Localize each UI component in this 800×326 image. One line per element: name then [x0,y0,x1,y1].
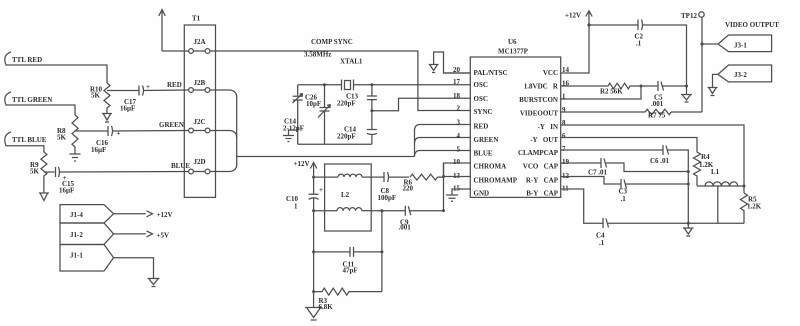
svg-text:VCC: VCC [543,69,558,77]
svg-text:J2D: J2D [194,158,206,166]
svg-text:B-Y CAP: B-Y CAP [526,189,558,197]
svg-text:TTL RED: TTL RED [12,56,42,64]
svg-text:10: 10 [453,158,461,166]
svg-text:C7 .01: C7 .01 [588,169,608,177]
svg-text:J3-1: J3-1 [734,42,747,50]
svg-text:.001: .001 [399,224,412,232]
svg-text:5K: 5K [30,168,40,176]
svg-text:+: + [319,186,323,194]
svg-text:TTL BLUE: TTL BLUE [12,136,47,144]
svg-text:U6: U6 [508,38,517,46]
svg-text:16µF: 16µF [59,187,74,195]
svg-text:5: 5 [457,145,461,153]
svg-text:T1: T1 [192,15,201,23]
svg-text:9: 9 [562,106,566,114]
svg-text:+12V: +12V [565,12,581,20]
svg-text:16µF: 16µF [91,146,106,154]
svg-text:J1-2: J1-2 [70,231,83,239]
svg-text:4: 4 [457,132,461,140]
svg-text:VCO CAP: VCO CAP [523,162,559,170]
svg-text:CLAMPCAP: CLAMPCAP [518,149,559,157]
svg-text:-Y OUT: -Y OUT [530,136,558,144]
svg-text:CHROMAMP: CHROMAMP [474,176,518,184]
svg-text:16µF: 16µF [120,105,135,113]
svg-text:+12V: +12V [294,160,310,168]
svg-text:1: 1 [294,203,298,211]
svg-text:+5V: +5V [157,232,170,240]
svg-text:+: + [117,130,121,138]
svg-text:3: 3 [457,119,461,127]
svg-text:.1: .1 [599,239,605,247]
svg-text:10pF: 10pF [306,100,321,108]
svg-text:COMP SYNC: COMP SYNC [311,38,353,46]
svg-text:220: 220 [403,185,414,193]
svg-text:+12V: +12V [157,211,173,219]
svg-text:L1: L1 [711,168,720,176]
svg-text:GREEN: GREEN [159,121,184,129]
svg-text:SYNC: SYNC [474,108,493,116]
svg-text:17: 17 [453,78,461,86]
svg-text:1.8VDC R: 1.8VDC R [524,82,559,90]
svg-text:CHROMA: CHROMA [474,162,507,170]
svg-text:L2: L2 [341,191,350,199]
svg-text:19: 19 [562,158,570,166]
svg-text:1.2K: 1.2K [747,203,762,211]
svg-text:R4: R4 [701,153,710,161]
svg-text:GREEN: GREEN [474,136,499,144]
svg-text:2-12pF: 2-12pF [283,125,304,133]
svg-text:R-Y CAP: R-Y CAP [526,176,559,184]
svg-text:GND: GND [474,189,490,197]
svg-text:2: 2 [457,104,461,112]
svg-text:J1-1: J1-1 [70,252,83,260]
svg-text:6.8K: 6.8K [319,303,334,311]
svg-text:BLUE: BLUE [474,149,493,157]
svg-text:47pF: 47pF [343,267,358,275]
svg-text:-Y IN: -Y IN [538,123,558,131]
svg-text:+: + [146,83,150,91]
svg-text:RED: RED [474,122,489,130]
svg-text:.001: .001 [651,100,664,108]
svg-text:OSC: OSC [474,81,488,89]
svg-text:PAL/NTSC: PAL/NTSC [474,69,508,77]
svg-text:6: 6 [562,132,566,140]
svg-text:J2C: J2C [194,118,206,126]
svg-text:100pF: 100pF [378,194,397,202]
svg-text:220pF: 220pF [337,133,356,141]
svg-text:J2A: J2A [194,38,206,46]
svg-text:XTAL1: XTAL1 [340,58,363,66]
svg-text:C6 .01: C6 .01 [650,157,670,165]
svg-text:5K: 5K [91,92,101,100]
svg-text:8: 8 [562,119,566,127]
svg-text:J1-4: J1-4 [70,211,83,219]
svg-text:BURSTCON: BURSTCON [519,96,558,104]
svg-text:R7 75: R7 75 [648,112,666,120]
svg-text:TTL GREEN: TTL GREEN [12,96,52,104]
svg-text:.1: .1 [621,195,627,203]
svg-text:OSC: OSC [474,95,488,103]
svg-text:5K: 5K [57,134,67,142]
svg-text:R2 56K: R2 56K [600,88,623,96]
svg-text:VIDEO OUTPUT: VIDEO OUTPUT [725,21,779,29]
svg-text:18: 18 [453,92,461,100]
svg-text:.1: .1 [636,40,642,48]
svg-text:TP12: TP12 [681,12,697,20]
svg-text:RED: RED [167,81,182,89]
svg-text:BLUE: BLUE [171,162,190,170]
svg-text:J2B: J2B [194,79,206,87]
svg-text:J3-2: J3-2 [734,71,747,79]
svg-text:220pF: 220pF [337,100,356,108]
svg-text:7: 7 [562,145,566,153]
svg-text:VIDEOOUT: VIDEOOUT [520,109,558,117]
svg-text:MC1377P: MC1377P [498,48,529,56]
svg-text:3.58MHz: 3.58MHz [304,51,331,59]
